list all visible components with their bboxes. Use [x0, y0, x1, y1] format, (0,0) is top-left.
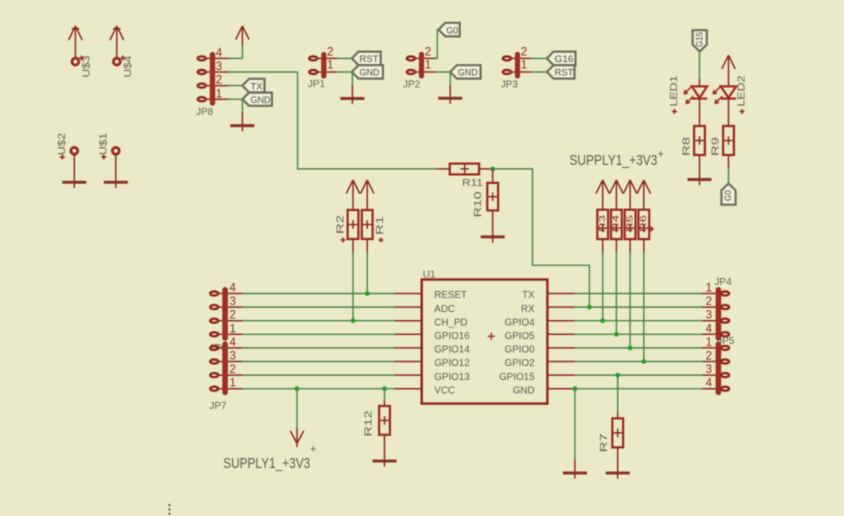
wire JP7 pin2 to GPIO13 — [243, 374, 395, 376]
svg-text:1: 1 — [425, 60, 431, 72]
svg-text:RST: RST — [555, 68, 574, 79]
svg-text:4: 4 — [216, 48, 223, 60]
op-amp U1 (ESP8266 module) — [395, 270, 575, 404]
node GPIO5/R4 — [614, 332, 619, 337]
flag GND (JP2) — [450, 65, 480, 78]
wire JP8 pin4 to supply — [229, 45, 243, 58]
svg-text:TX: TX — [251, 81, 264, 92]
svg-text:R2: R2 — [335, 214, 346, 234]
supply arrow above R4 — [610, 180, 623, 210]
svg-text:3: 3 — [230, 351, 236, 363]
resistor R12 — [364, 389, 390, 437]
svg-text:GND: GND — [458, 68, 478, 79]
wire JP3 pin2 to G16 flag — [531, 57, 547, 59]
flag G16 (JP3) — [547, 52, 576, 66]
resistor R2 — [335, 210, 358, 243]
svg-text:R6: R6 — [638, 215, 648, 232]
svg-text:GND: GND — [360, 68, 380, 79]
resistor R3 — [597, 210, 608, 239]
flag RST (JP1) — [352, 52, 381, 66]
wire RX row to JP4 pin2 — [575, 306, 702, 308]
ground under JP2 — [449, 85, 451, 99]
svg-text:4: 4 — [230, 337, 237, 349]
svg-text:G0: G0 — [723, 190, 734, 201]
resistor R11 — [436, 164, 493, 189]
svg-text:JP8: JP8 — [196, 107, 214, 118]
wire G15 to LED1 — [699, 52, 701, 80]
flag TX — [242, 79, 264, 93]
node VCC/R12 — [382, 386, 387, 391]
supply arrow above R3 — [596, 180, 609, 210]
svg-text:GPIO2: GPIO2 — [505, 358, 535, 369]
svg-text:SUPPLY1_+3V3: SUPPLY1_+3V3 — [223, 456, 310, 472]
svg-text:1: 1 — [327, 60, 333, 72]
wire R1 to RESET row — [366, 239, 368, 253]
wire JP3 pin1 to RST flag — [531, 71, 547, 73]
svg-text:GND: GND — [513, 385, 535, 396]
svg-text:2: 2 — [327, 47, 333, 59]
svg-text:1: 1 — [521, 60, 527, 72]
svg-text:GPIO12: GPIO12 — [434, 358, 469, 369]
svg-text:LED2: LED2 — [737, 75, 748, 107]
svg-text:2: 2 — [706, 296, 712, 308]
svg-text:RX: RX — [521, 304, 535, 315]
flag GND (JP8) — [242, 93, 272, 106]
svg-text:3: 3 — [230, 296, 236, 308]
svg-text:CH_PD: CH_PD — [434, 317, 467, 328]
U1 left pin stubs — [395, 294, 422, 389]
svg-text:2: 2 — [425, 47, 431, 59]
wire junction to RX row (jog) — [493, 169, 590, 307]
svg-text:1: 1 — [230, 323, 236, 335]
wire JP7 pin3 to GPIO12 — [243, 361, 395, 363]
svg-text:R5: R5 — [624, 215, 634, 232]
ground under GND net — [574, 459, 576, 473]
svg-text:3: 3 — [706, 364, 712, 376]
wire JP7 pin1 to VCC — [243, 388, 395, 390]
antenna U$4 — [110, 26, 134, 78]
ground under R8 — [699, 155, 701, 180]
svg-text:ADC: ADC — [434, 304, 455, 315]
svg-text:4: 4 — [230, 283, 237, 295]
supply arrow above R2 — [346, 180, 359, 210]
svg-text:GPIO5: GPIO5 — [505, 331, 535, 342]
header JP1 — [308, 47, 338, 90]
node GPIO2/R6 — [641, 359, 646, 364]
svg-text:JP4: JP4 — [714, 277, 732, 288]
ground under R10 — [492, 211, 494, 237]
ground under R12 — [384, 435, 386, 461]
pad U$2 — [57, 132, 78, 159]
supply arrow above JP8 — [236, 26, 249, 45]
ground under U$1 — [104, 181, 128, 184]
svg-text:U$1: U$1 — [99, 132, 110, 155]
svg-text:GPIO4: GPIO4 — [505, 317, 535, 328]
svg-text:RESET: RESET — [434, 290, 467, 301]
wire R2 to CH_PD row — [352, 239, 354, 253]
U1 origin cross — [488, 333, 495, 340]
wire JP2 pin2 to G0 flag — [435, 30, 439, 59]
node GPIO0/R5 — [628, 346, 633, 351]
node GPIO15/R7 — [615, 373, 620, 378]
svg-text:GND: GND — [251, 95, 271, 106]
wire R9 to G0 flag — [728, 155, 730, 169]
resistor R9 — [711, 126, 734, 156]
wire R3 to GPIO4 row — [602, 239, 604, 253]
svg-text:4: 4 — [706, 323, 713, 335]
svg-text:R3: R3 — [597, 215, 607, 232]
svg-text:LED1: LED1 — [669, 75, 680, 107]
node RX/jog — [587, 305, 592, 310]
ground under U$2 — [62, 181, 86, 184]
resistor R10 — [473, 169, 498, 217]
svg-text:G15: G15 — [694, 32, 705, 47]
svg-text:+: + — [310, 444, 316, 456]
wire R5 to GPIO0 row — [629, 239, 631, 253]
svg-text:JP5: JP5 — [717, 336, 735, 347]
header JP3 — [501, 47, 531, 91]
svg-text:GPIO0: GPIO0 — [505, 345, 535, 356]
flag G0 (JP2) — [439, 23, 460, 37]
svg-text:R1: R1 — [375, 215, 386, 235]
svg-text:R10: R10 — [473, 191, 484, 218]
resistor R4 — [611, 210, 622, 239]
svg-text:2: 2 — [230, 364, 236, 376]
frame mark — [169, 504, 171, 516]
svg-text:U$2: U$2 — [57, 132, 68, 155]
node junction R11/R10 — [490, 167, 495, 172]
svg-text:GPIO16: GPIO16 — [434, 331, 470, 342]
wire GPIO2 row to JP5 pin2 — [575, 361, 702, 363]
wire U$2 to ground — [73, 154, 75, 182]
wire R4 to GPIO5 row — [615, 239, 617, 253]
flag RST (JP3) — [547, 65, 575, 78]
wire GPIO15 row to JP5 pin3 — [575, 374, 702, 376]
header JP5 — [702, 336, 735, 395]
wire GND row to JP5 pin4 — [575, 388, 702, 390]
svg-text:+: + — [658, 149, 664, 161]
wire U$1 to ground — [115, 154, 117, 182]
flag G0 (bottom) — [721, 183, 735, 204]
LED LED1 — [669, 75, 707, 126]
ground under JP8 — [241, 112, 243, 126]
header JP4 — [702, 277, 732, 341]
flag GND (JP1) — [352, 65, 383, 78]
node GPIO4/R3 — [600, 318, 605, 323]
flag G15 — [693, 30, 707, 51]
node CH_PD/R2 — [351, 318, 356, 323]
svg-text:1: 1 — [706, 283, 712, 295]
wire JP8 pin2 to TX flag — [229, 85, 243, 87]
wire JP7 pin4 to GPIO14 — [243, 347, 395, 349]
svg-text:RST: RST — [360, 54, 379, 65]
LED LED2 — [713, 75, 748, 126]
wire GPIO5 row to JP4 pin4 — [575, 333, 702, 335]
node GND/ground — [573, 386, 578, 391]
svg-text:3: 3 — [706, 310, 712, 322]
supply arrow above R6 — [637, 180, 650, 210]
svg-text:U1: U1 — [423, 270, 436, 281]
LED2 emission arrows — [713, 87, 721, 95]
svg-text:TX: TX — [522, 290, 535, 301]
wire JP1 pin2 to RST flag — [337, 57, 352, 59]
wire GPIO4 row to JP4 pin3 — [575, 320, 702, 322]
svg-text:R4: R4 — [611, 215, 621, 232]
svg-text:R12: R12 — [364, 410, 375, 437]
antenna U$3 — [69, 26, 93, 78]
node RESET/R1 — [365, 291, 370, 296]
wire GPIO0 row to JP5 pin1 — [575, 347, 702, 349]
svg-text:2: 2 — [216, 75, 222, 87]
header JP8 — [196, 48, 229, 119]
svg-text:G16: G16 — [555, 54, 574, 65]
svg-text:1: 1 — [706, 337, 712, 349]
svg-text:JP3: JP3 — [501, 79, 519, 90]
node VCC/supply — [295, 386, 300, 391]
svg-text:VCC: VCC — [434, 385, 455, 396]
resistor R6 — [638, 210, 654, 239]
wire JP8 pin1 to GND flag and down — [229, 99, 243, 112]
svg-text:2: 2 — [706, 351, 712, 363]
svg-text:2: 2 — [521, 47, 527, 59]
LED1 emission arrows — [684, 87, 692, 95]
svg-text:GPIO14: GPIO14 — [434, 345, 470, 356]
wire JP6 pin2 to CH_PD — [243, 320, 395, 322]
wire TX row to JP4 pin1 — [575, 293, 702, 295]
wire JP6 pin4 to RESET — [243, 293, 395, 295]
svg-text:4: 4 — [706, 378, 713, 390]
ground under JP1 — [351, 85, 353, 99]
supply arrow above R5 — [623, 180, 636, 210]
resistor R5 — [624, 210, 635, 239]
U1 right pin stubs — [547, 294, 574, 389]
svg-text:JP7: JP7 — [209, 401, 227, 412]
header JP2 — [403, 47, 435, 91]
svg-text:3: 3 — [216, 61, 222, 73]
supply arrow above LED2 — [722, 55, 735, 80]
supply arrow above R1 — [361, 180, 374, 210]
svg-text:G0: G0 — [446, 25, 458, 36]
wire R6 to GPIO2 row — [643, 239, 645, 253]
resistor R8 — [682, 126, 705, 156]
svg-text:2: 2 — [230, 310, 236, 322]
pad U$1 — [99, 132, 120, 159]
header JP6 — [209, 283, 242, 355]
resistor R7 — [599, 375, 623, 452]
wire VCC to supply arrow — [296, 389, 298, 428]
wire JP6 pin3 to ADC — [243, 306, 395, 308]
svg-text:JP1: JP1 — [308, 79, 326, 90]
svg-text:R9: R9 — [711, 136, 722, 156]
svg-text:R11: R11 — [462, 178, 484, 189]
svg-text:R7: R7 — [599, 433, 610, 453]
svg-text:SUPPLY1_+3V3: SUPPLY1_+3V3 — [569, 153, 657, 169]
wire JP6 pin1 to GPIO16 — [243, 333, 395, 335]
header JP7 — [209, 337, 242, 412]
svg-text:JP2: JP2 — [403, 79, 421, 90]
svg-text:1: 1 — [230, 378, 236, 390]
wire JP2 pin1 to GND flag and down — [435, 72, 450, 85]
svg-text:R8: R8 — [682, 136, 693, 156]
supply arrow +3V3 (down) — [290, 428, 303, 447]
svg-text:GPIO13: GPIO13 — [434, 372, 470, 383]
svg-text:GPIO15: GPIO15 — [499, 372, 535, 383]
resistor R1 — [362, 210, 386, 243]
wire JP8 pin3 to R11 — [229, 72, 436, 169]
wire JP1 pin1 to GND flag and down — [337, 72, 352, 85]
wire GND row down to ground — [574, 389, 576, 460]
svg-text:1: 1 — [216, 88, 222, 100]
ground under R7 — [617, 447, 619, 473]
